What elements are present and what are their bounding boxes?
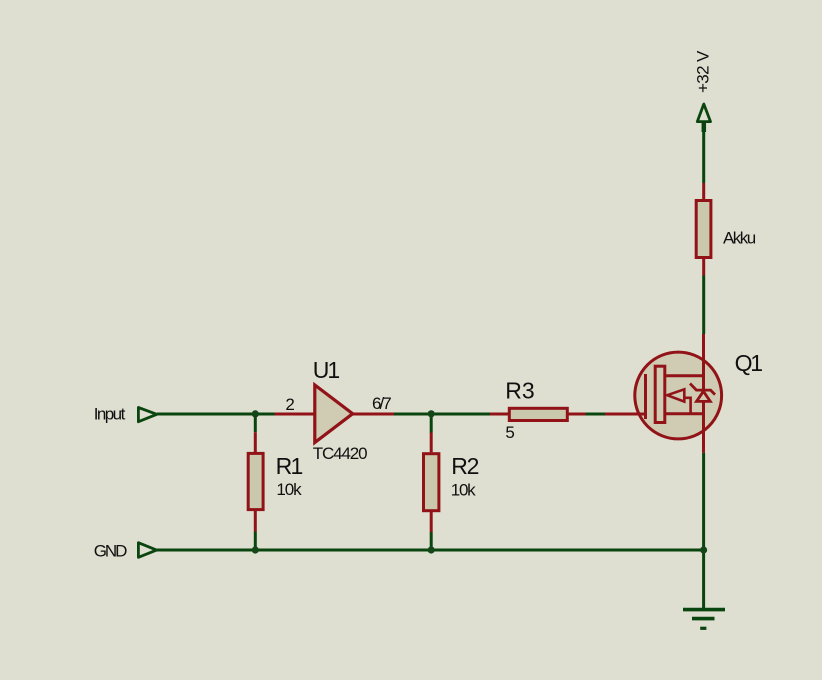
svg-text:Input: Input: [94, 405, 126, 424]
svg-text:6/7: 6/7: [372, 394, 392, 413]
svg-text:R3: R3: [505, 378, 535, 404]
svg-text:5: 5: [505, 423, 514, 442]
svg-text:10k: 10k: [276, 480, 302, 499]
svg-text:GND: GND: [94, 541, 128, 560]
svg-text:R1: R1: [276, 453, 304, 479]
svg-text:Q1: Q1: [735, 350, 764, 376]
svg-text:2: 2: [285, 395, 294, 414]
svg-text:Akku: Akku: [723, 228, 756, 247]
svg-text:+32 V: +32 V: [694, 50, 713, 93]
svg-text:R2: R2: [451, 453, 479, 479]
svg-text:U1: U1: [313, 357, 340, 383]
svg-text:TC4420: TC4420: [313, 444, 368, 463]
svg-text:10k: 10k: [451, 480, 476, 499]
